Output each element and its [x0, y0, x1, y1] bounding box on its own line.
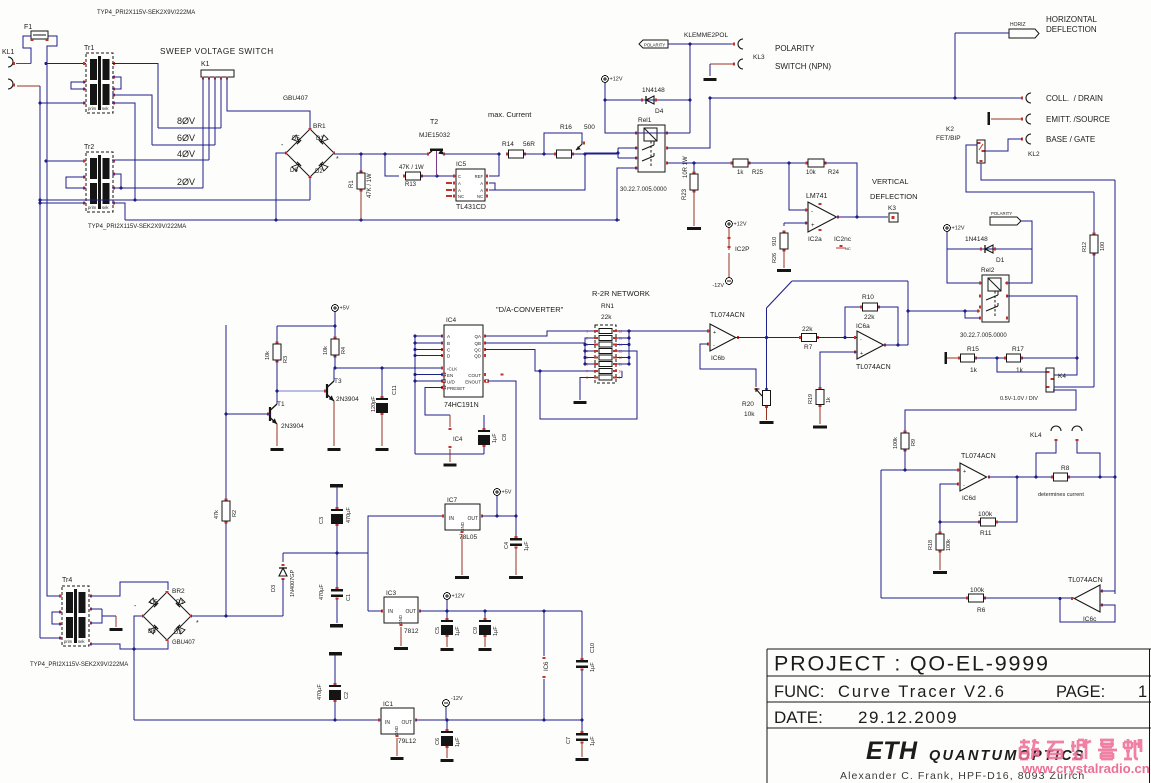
wire R16 right	[572, 153, 618, 156]
wire F1 left to KL1	[16, 36, 31, 64]
transistor T1	[268, 391, 304, 451]
svg-text:+5V: +5V	[340, 306, 350, 312]
svg-text:DEFLECTION: DEFLECTION	[1046, 25, 1097, 34]
svg-text:C6: C6	[435, 738, 441, 745]
svg-text:DEFLECTION: DEFLECTION	[870, 192, 918, 201]
svg-text:7: 7	[586, 370, 588, 374]
wire +5V rail	[277, 312, 336, 327]
svg-text:KL4: KL4	[1030, 432, 1042, 439]
svg-text:120pF: 120pF	[371, 396, 377, 412]
svg-text:7812: 7812	[404, 628, 419, 635]
wire BR1 bottom to rail200	[309, 177, 311, 200]
svg-text:10k: 10k	[744, 411, 755, 418]
wire Tr1 sek loop	[112, 77, 121, 89]
svg-text:470µF: 470µF	[317, 684, 323, 700]
transistor T2	[419, 119, 450, 156]
svg-text:BR2: BR2	[172, 588, 185, 595]
wire long row98	[710, 97, 1022, 100]
svg-text:R19: R19	[808, 394, 814, 404]
label IC2nc	[834, 236, 852, 251]
svg-text:+: +	[860, 351, 863, 357]
svg-text:IC4: IC4	[446, 317, 457, 324]
wire Tr1 pin1	[46, 62, 86, 105]
svg-text:+5V: +5V	[502, 490, 512, 496]
svg-text:SWITCH (NPN): SWITCH (NPN)	[775, 62, 831, 71]
svg-text:R14: R14	[502, 141, 514, 148]
svg-text:POLARITY: POLARITY	[991, 211, 1012, 216]
label VERTICAL DEFLECTION	[870, 177, 918, 201]
wire Tr1 sek pins	[113, 62, 115, 105]
wire Tr1 sek4 drop to rail	[112, 103, 136, 201]
svg-text:R17: R17	[1012, 346, 1024, 353]
wire BR2 left tip	[133, 616, 143, 650]
connector K3	[888, 205, 898, 222]
power pins IC4	[444, 429, 464, 467]
svg-text:22k: 22k	[864, 314, 875, 321]
resistor R4	[323, 326, 347, 357]
svg-text:9: 9	[619, 376, 621, 380]
svg-text:1k: 1k	[1016, 367, 1024, 374]
svg-text:15: 15	[619, 337, 623, 341]
svg-text:GND: GND	[398, 614, 403, 625]
svg-text:OUT: OUT	[401, 720, 412, 726]
wire R7 to IC6a	[817, 336, 857, 339]
wire T1 base	[225, 413, 271, 416]
svg-text:sek: sek	[102, 106, 109, 111]
svg-text:-: -	[811, 209, 813, 215]
svg-text:PAGE:: PAGE:	[1056, 683, 1105, 701]
title date row	[774, 708, 958, 727]
wire IC6a plus	[820, 352, 857, 388]
svg-text:22k: 22k	[601, 314, 612, 321]
wire R15-R17	[976, 357, 1007, 360]
svg-text:QD: QD	[474, 354, 482, 359]
wire R24 feedback	[825, 163, 858, 218]
wire IC7 out	[482, 515, 517, 518]
svg-text:C10: C10	[590, 643, 596, 653]
wire Tr4 left loop	[52, 612, 62, 624]
svg-text:R12: R12	[1082, 242, 1088, 252]
resistor R18	[928, 522, 952, 574]
svg-text:30.22.7.005.0000: 30.22.7.005.0000	[620, 187, 667, 193]
wire Rel1 common to rail	[617, 168, 638, 220]
svg-text:100k: 100k	[970, 587, 985, 594]
wire KL4 left leg	[1036, 441, 1056, 477]
resistor R3	[265, 326, 289, 363]
terminal bar R15	[945, 352, 961, 364]
wire Tr4 pins right	[90, 594, 92, 645]
svg-text:PROJECT : QO-EL-9999: PROJECT : QO-EL-9999	[774, 652, 1050, 676]
svg-text:D6: D6	[290, 168, 298, 174]
transistor T3	[325, 368, 359, 451]
label D/A-CONVERTER	[496, 305, 564, 314]
svg-text:6: 6	[586, 363, 588, 367]
watermark hanzi	[1020, 739, 1141, 759]
svg-text:R9: R9	[911, 439, 917, 446]
connector KL1	[2, 49, 15, 89]
wire IC6b out	[736, 336, 802, 339]
wire left rail x46	[45, 46, 48, 162]
svg-text:D4: D4	[655, 108, 664, 115]
svg-text:10R 1W: 10R 1W	[683, 156, 689, 178]
wire diagonal feedback	[767, 281, 910, 345]
ic IC3 7812	[382, 590, 420, 635]
svg-text:*: *	[336, 156, 339, 163]
svg-text:DATE:: DATE:	[774, 708, 823, 727]
wire F1 right to rail	[47, 36, 57, 64]
wire R20 top rail	[766, 308, 768, 390]
svg-text:RN1: RN1	[601, 303, 614, 310]
svg-text:sek: sek	[78, 639, 85, 644]
connector COLL arc	[1022, 93, 1031, 103]
svg-text:2N3904: 2N3904	[336, 396, 359, 403]
svg-text:IN: IN	[385, 720, 390, 726]
bridge rectifier BR2	[134, 588, 199, 646]
flag POLARITY klemme	[639, 32, 728, 48]
svg-text:EN: EN	[447, 373, 453, 378]
svg-text:1µF: 1µF	[493, 626, 499, 636]
diode D1 1N4148	[965, 236, 1005, 264]
svg-text:BR1: BR1	[313, 123, 326, 130]
wire Tr4 sek1 to BR2	[90, 582, 168, 596]
svg-text:R16: R16	[560, 124, 572, 131]
svg-text:1N4148: 1N4148	[965, 236, 988, 243]
svg-text:C9: C9	[473, 627, 479, 634]
wire Tr2 sek pins	[113, 159, 115, 204]
svg-text:F1: F1	[24, 24, 32, 31]
wire K1 drop4 80V	[220, 78, 222, 128]
resistor R19	[808, 388, 832, 429]
capacitor C9	[473, 611, 499, 651]
svg-text:A: A	[458, 181, 461, 186]
resistor R1	[349, 172, 373, 199]
label GBU407 BR1	[283, 95, 308, 102]
wire Tr4 sek mid	[90, 609, 116, 623]
resistor R12	[1082, 192, 1106, 387]
svg-text:T1: T1	[277, 401, 285, 408]
svg-text:KL2: KL2	[1028, 151, 1040, 158]
svg-text:+12V: +12V	[952, 226, 965, 232]
svg-text:R15: R15	[967, 346, 979, 353]
svg-text:47K / 1W: 47K / 1W	[399, 165, 424, 171]
wire IC1 out rail	[416, 719, 582, 722]
connector EMITT arc	[1022, 114, 1031, 124]
svg-text:LM741: LM741	[806, 193, 828, 200]
wire KL4 right leg	[1077, 441, 1100, 477]
svg-text:GND: GND	[460, 521, 465, 532]
svg-text:470µF: 470µF	[319, 584, 325, 600]
svg-text:C2: C2	[344, 692, 350, 699]
svg-text:D2: D2	[174, 630, 182, 636]
svg-text:+: +	[713, 330, 716, 336]
svg-text:C: C	[458, 174, 461, 179]
wire +12V rail out	[420, 610, 582, 613]
svg-text:IC6a: IC6a	[856, 323, 870, 330]
svg-text:47k: 47k	[214, 510, 220, 519]
svg-text:1N4148: 1N4148	[642, 87, 665, 94]
resistor R14	[502, 141, 535, 158]
svg-text:GBU407: GBU407	[283, 95, 308, 102]
capacitor C7	[566, 720, 596, 761]
switch K1	[201, 61, 234, 80]
svg-text:Tr2: Tr2	[84, 144, 94, 151]
wire to IC7 IN	[368, 516, 443, 553]
power +12V Rel2	[944, 225, 965, 232]
svg-text:2ØV: 2ØV	[177, 177, 195, 187]
svg-text:100k: 100k	[893, 437, 899, 449]
capacitor C11	[371, 367, 398, 452]
resistor R7	[800, 326, 818, 351]
power +5V T-region	[332, 305, 350, 312]
wire R11 to inv	[939, 484, 980, 523]
wire Tr2 pin4 bottom	[40, 202, 86, 204]
svg-text:+12V: +12V	[610, 77, 623, 83]
power IC2P	[712, 221, 749, 289]
svg-text:0.5V-1.0V / DIV: 0.5V-1.0V / DIV	[1000, 396, 1038, 402]
svg-text:K2: K2	[946, 126, 954, 133]
label EMITT SOURCE	[1046, 115, 1110, 124]
op-amp IC6a	[855, 323, 891, 371]
svg-text:TL074ACN: TL074ACN	[710, 312, 745, 319]
svg-text:TL074ACN: TL074ACN	[961, 453, 996, 460]
bridge rectifier BR1	[281, 123, 339, 177]
connector KL3 pin2	[704, 59, 744, 81]
svg-text:D1: D1	[996, 257, 1005, 264]
svg-text:R23: R23	[682, 188, 688, 200]
svg-text:500: 500	[584, 124, 595, 131]
svg-text:D1: D1	[176, 600, 184, 606]
svg-text:HORIZ: HORIZ	[1010, 22, 1026, 28]
svg-text:R13: R13	[405, 182, 417, 188]
fuse F1	[24, 24, 49, 40]
svg-text:sek: sek	[102, 205, 109, 210]
svg-text:-: -	[860, 337, 862, 343]
wire IC6d out	[988, 476, 1037, 479]
wire right rail x1115	[1114, 180, 1116, 594]
wire ENOUT to C4 rail	[487, 375, 516, 517]
title block frame	[767, 649, 1151, 783]
svg-text:R6: R6	[977, 607, 986, 614]
wire Tr1 pin4 bottom	[40, 102, 86, 104]
label BASE GATE	[1046, 135, 1095, 144]
svg-text:A: A	[480, 181, 483, 186]
wire K1 drop2 40V	[208, 78, 210, 160]
wire R8 to right rail	[1099, 476, 1117, 479]
diode D4 1N4148	[605, 87, 691, 115]
capacitor C6	[435, 720, 461, 762]
wire horiz drop	[954, 33, 956, 98]
label 80V	[177, 116, 195, 126]
svg-text:NC: NC	[458, 194, 464, 199]
svg-text:"D/A-CONVERTER": "D/A-CONVERTER"	[496, 305, 564, 314]
svg-text:100k: 100k	[978, 511, 993, 518]
resistor R10 feedback	[845, 294, 898, 345]
relay Rel1	[620, 117, 667, 193]
wire Tr2 left loop	[66, 177, 86, 188]
label 60V	[177, 133, 195, 143]
svg-text:12: 12	[619, 356, 623, 360]
svg-text:IC3: IC3	[386, 590, 397, 597]
resistor R23	[682, 156, 701, 230]
svg-text:IC6: IC6	[544, 661, 550, 671]
svg-text:D1: D1	[316, 136, 324, 142]
wire R4 to CLK row	[334, 355, 443, 369]
svg-text:PRESET: PRESET	[447, 386, 465, 391]
svg-text:IC2nc: IC2nc	[834, 236, 852, 243]
resistor R8	[1036, 465, 1100, 498]
wire QC to RN1 row7	[485, 350, 594, 372]
wire IC4 gnd row	[415, 449, 484, 454]
resistor R13	[399, 165, 424, 188]
resistor R6	[881, 587, 1074, 614]
wire IC6c inv loop	[1059, 597, 1115, 622]
capacitor C1	[319, 553, 352, 628]
label COLL DRAIN	[1046, 94, 1103, 103]
capacitor C8	[478, 415, 508, 454]
svg-text:C4: C4	[504, 542, 510, 549]
ic IC4 74HC191N	[442, 317, 489, 409]
wire -12V rail	[134, 719, 381, 721]
svg-text:OUT: OUT	[467, 516, 478, 522]
wire Rel2 in1	[908, 309, 980, 312]
svg-text:8: 8	[586, 376, 588, 380]
wire IC2a inv input	[789, 163, 808, 210]
wire T2 joins row	[444, 153, 499, 155]
logo ETH	[866, 737, 1086, 765]
wire main dc row	[334, 153, 428, 156]
wire IC3 in	[368, 553, 382, 611]
svg-text:EMITT. /SOURCE: EMITT. /SOURCE	[1046, 115, 1110, 124]
svg-text:11: 11	[619, 363, 623, 367]
svg-text:+: +	[811, 223, 815, 229]
power +12V Rel1	[602, 76, 623, 83]
wire IC4 preset route	[425, 388, 450, 428]
svg-text:IC6b: IC6b	[711, 355, 725, 362]
wire Tr1 left loop	[71, 82, 86, 89]
svg-text:*: *	[196, 620, 199, 627]
power pins IC6	[542, 611, 550, 721]
svg-text:NC: NC	[477, 194, 483, 199]
transformer Tr2	[84, 144, 113, 212]
wire BR2 right tip	[191, 615, 283, 617]
connector K4	[1000, 368, 1066, 402]
svg-text:8ØV: 8ØV	[177, 116, 195, 126]
connector BASE arc	[1022, 134, 1031, 144]
network RN1	[594, 325, 617, 383]
svg-text:POLARITY: POLARITY	[644, 43, 665, 48]
svg-text:VERTICAL: VERTICAL	[872, 177, 909, 186]
svg-text:Rel2: Rel2	[981, 267, 995, 274]
label TYP4 Tr2	[88, 224, 186, 230]
wire R17 right	[1022, 357, 1078, 360]
svg-text:5: 5	[586, 356, 588, 360]
svg-text:C7: C7	[566, 737, 572, 744]
wire 20V row	[120, 187, 203, 190]
pot R16 bypass	[544, 133, 582, 154]
svg-text:R26: R26	[772, 253, 778, 263]
svg-text:IN: IN	[388, 609, 393, 615]
wire K4 to R12	[1054, 386, 1094, 388]
wire K2 bottom path	[981, 163, 1115, 180]
wire IC3 gnd	[394, 627, 408, 650]
svg-text:KL1: KL1	[2, 49, 15, 56]
svg-text:D3: D3	[271, 585, 277, 592]
svg-text:79L12: 79L12	[398, 738, 416, 745]
svg-text:TYP4_PRI2X115V-SEK2X9V/222MA: TYP4_PRI2X115V-SEK2X9V/222MA	[88, 224, 186, 230]
wire K1 drop5 to BR1	[227, 78, 310, 129]
resistor R9 100k	[893, 432, 917, 451]
label POLARITY SWITCH	[775, 44, 831, 71]
svg-text:Rel1: Rel1	[638, 117, 652, 124]
wire IC7 gnd	[455, 534, 469, 579]
svg-text:IC1: IC1	[383, 701, 394, 708]
wire flag to KL3	[668, 43, 734, 45]
svg-text:IC2a: IC2a	[808, 236, 822, 243]
wire RN1 row4 out loop	[539, 351, 637, 419]
svg-text:R3: R3	[283, 356, 289, 363]
wire T2 base stub	[436, 151, 438, 176]
svg-text:TL431CD: TL431CD	[456, 204, 486, 211]
svg-text:TYP4_PRI2X115V-SEK2X9V/222MA: TYP4_PRI2X115V-SEK2X9V/222MA	[97, 10, 195, 16]
wire x226 rail upper	[225, 325, 227, 500]
svg-text:D5: D5	[150, 600, 158, 606]
op-amp IC6c	[1068, 577, 1103, 623]
svg-text:IC7: IC7	[447, 497, 458, 504]
svg-text:+12V: +12V	[734, 222, 747, 228]
svg-text:R8: R8	[1061, 465, 1070, 472]
svg-text:6ØV: 6ØV	[177, 133, 195, 143]
wire R25 to R24	[749, 162, 808, 165]
svg-text:A: A	[458, 188, 461, 193]
ic IC7 78L05	[443, 497, 482, 541]
wire Tr1 sek1 to 80V row	[112, 64, 158, 129]
svg-text:2: 2	[586, 337, 588, 341]
svg-text:1N4007GP: 1N4007GP	[290, 569, 296, 597]
svg-text:determines current: determines current	[1038, 492, 1084, 498]
wire Tr4 pins left	[59, 594, 61, 639]
wire Rel2 in2	[964, 310, 980, 318]
label TYP4 top	[97, 10, 195, 16]
svg-text:C11: C11	[392, 385, 398, 395]
svg-text:+: +	[963, 469, 966, 475]
svg-text:1: 1	[586, 330, 588, 334]
capacitor C3	[319, 484, 352, 553]
diode D3 1N4007GP	[271, 553, 296, 616]
svg-text:Curve Tracer V2.6: Curve Tracer V2.6	[838, 683, 1006, 701]
capacitor C4	[504, 516, 530, 579]
svg-text:›CLK: ›CLK	[447, 367, 457, 372]
svg-text:R11: R11	[980, 530, 992, 537]
capacitor C2	[317, 652, 350, 721]
wire rail y220	[125, 219, 620, 222]
svg-text:MJE15032: MJE15032	[419, 132, 450, 139]
wire Tr2 sek4 to rail 220	[112, 203, 125, 220]
svg-text:GND: GND	[394, 725, 399, 736]
svg-text:K3: K3	[888, 205, 896, 212]
svg-text:1k: 1k	[826, 397, 832, 403]
svg-text:10: 10	[619, 370, 623, 374]
svg-text:COLL. / DRAIN: COLL. / DRAIN	[1046, 94, 1103, 103]
svg-text:-12V: -12V	[451, 696, 463, 702]
label KL2	[1028, 151, 1040, 158]
wire RN1 left bus	[584, 338, 594, 365]
label R-2R NETWORK	[592, 289, 650, 321]
wire 80V row	[158, 127, 221, 129]
wire BASE to K2	[985, 139, 1022, 151]
wire Tr2 sek loop	[112, 174, 121, 188]
wire K1 drop1 20V	[202, 78, 204, 188]
wire QB to RN1 row2	[485, 338, 594, 343]
